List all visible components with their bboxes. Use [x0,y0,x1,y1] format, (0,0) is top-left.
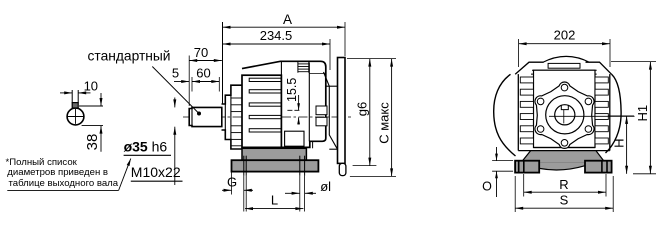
face top lines [532,69,597,71]
dimension H1 [611,61,656,63]
dimension 234.5 [223,43,331,45]
svg-text:15.5: 15.5 [285,78,299,102]
dimension o35 h6 leader [174,98,176,108]
flange bottom lug [339,163,346,175]
dimension C max [350,175,396,177]
svg-text:10: 10 [84,78,98,93]
side view centerline [183,116,351,118]
foot pad right end view [585,161,612,173]
svg-text:234.5: 234.5 [260,28,293,43]
foot pad left end view [515,161,539,173]
svg-text:H: H [611,139,626,148]
svg-text:M10x22: M10x22 [131,164,181,180]
gear unit foot upper block [242,148,306,160]
svg-text:R: R [559,177,568,192]
svg-text:стандартный: стандартный [88,49,171,64]
gearbox housing [242,75,281,147]
hood outline end view [515,62,543,74]
svg-text:60: 60 [196,66,210,81]
motor body left arc end view [494,74,516,156]
svg-text:202: 202 [554,27,576,42]
foot plate [232,160,319,171]
svg-text:A: A [283,12,292,27]
mounting flange plate [338,58,346,164]
pad bolt holes [518,161,520,173]
belly gray under trapezoid [539,163,585,170]
gearbox cooling fin slots [249,78,281,81]
fan cowl dome arc [543,56,590,62]
dimension A [223,26,346,28]
motor hood top outline [242,61,326,147]
dimension G [231,173,233,195]
bore keyway [561,105,568,109]
input coupling rects [316,106,327,115]
fan cowl vents [297,61,299,72]
dimension L [243,176,245,212]
fan cowl joint line [308,63,310,142]
face side fins right [595,77,608,83]
svg-text:øl: øl [320,179,331,194]
nameplate rect [548,63,580,68]
dimension g6 [347,58,396,60]
svg-text:ø35 h6: ø35 h6 [124,139,168,155]
dimension 5 [174,81,189,83]
svg-text:O: O [482,180,492,194]
motor body right arc end view [606,74,622,153]
dimension O [492,160,513,162]
flange ring circle [546,96,584,134]
svg-text:g6: g6 [355,102,370,116]
dimension R [523,174,525,197]
gear face square [534,70,596,147]
dimension 60 [192,81,219,83]
output shaft [189,107,222,126]
feet trapezoid end view [521,151,606,163]
motor/gearbox joint line [280,61,282,147]
face side fins left [520,77,533,83]
bottom box [285,131,304,146]
dimension 10 [60,92,72,94]
key on shaft detail [72,103,78,108]
svg-text:диаметров приведен в: диаметров приведен в [7,167,108,178]
end view crosshair [549,115,635,117]
svg-text:таблице выходного вала: таблице выходного вала [9,178,119,189]
dimension ol [285,192,300,194]
dimension 70 [189,60,222,62]
svg-text:38: 38 [84,134,101,151]
gearbox nose step 1 [222,85,243,104]
flange adapter [324,72,338,149]
foot bolt holes side view [243,156,245,176]
dimension H [608,115,634,117]
shaft bore circle [555,105,575,125]
svg-text:G: G [227,174,237,189]
gearbox nose ribs [231,97,242,99]
svg-text:L: L [271,192,278,207]
dimension 15.5 [287,109,299,111]
svg-text:70: 70 [194,45,208,60]
svg-text:S: S [560,192,569,207]
svg-text:5: 5 [172,66,179,81]
svg-text:С макс: С макс [376,102,391,144]
shaft end detail circle [67,108,84,125]
flange bolt holes [561,84,568,91]
dimension 202 [519,43,610,45]
dimension 38 [79,105,103,107]
output flange lobed outline [535,82,594,148]
svg-text:H1: H1 [635,105,650,122]
dimension S [514,176,516,212]
footnote leader line [7,189,118,191]
